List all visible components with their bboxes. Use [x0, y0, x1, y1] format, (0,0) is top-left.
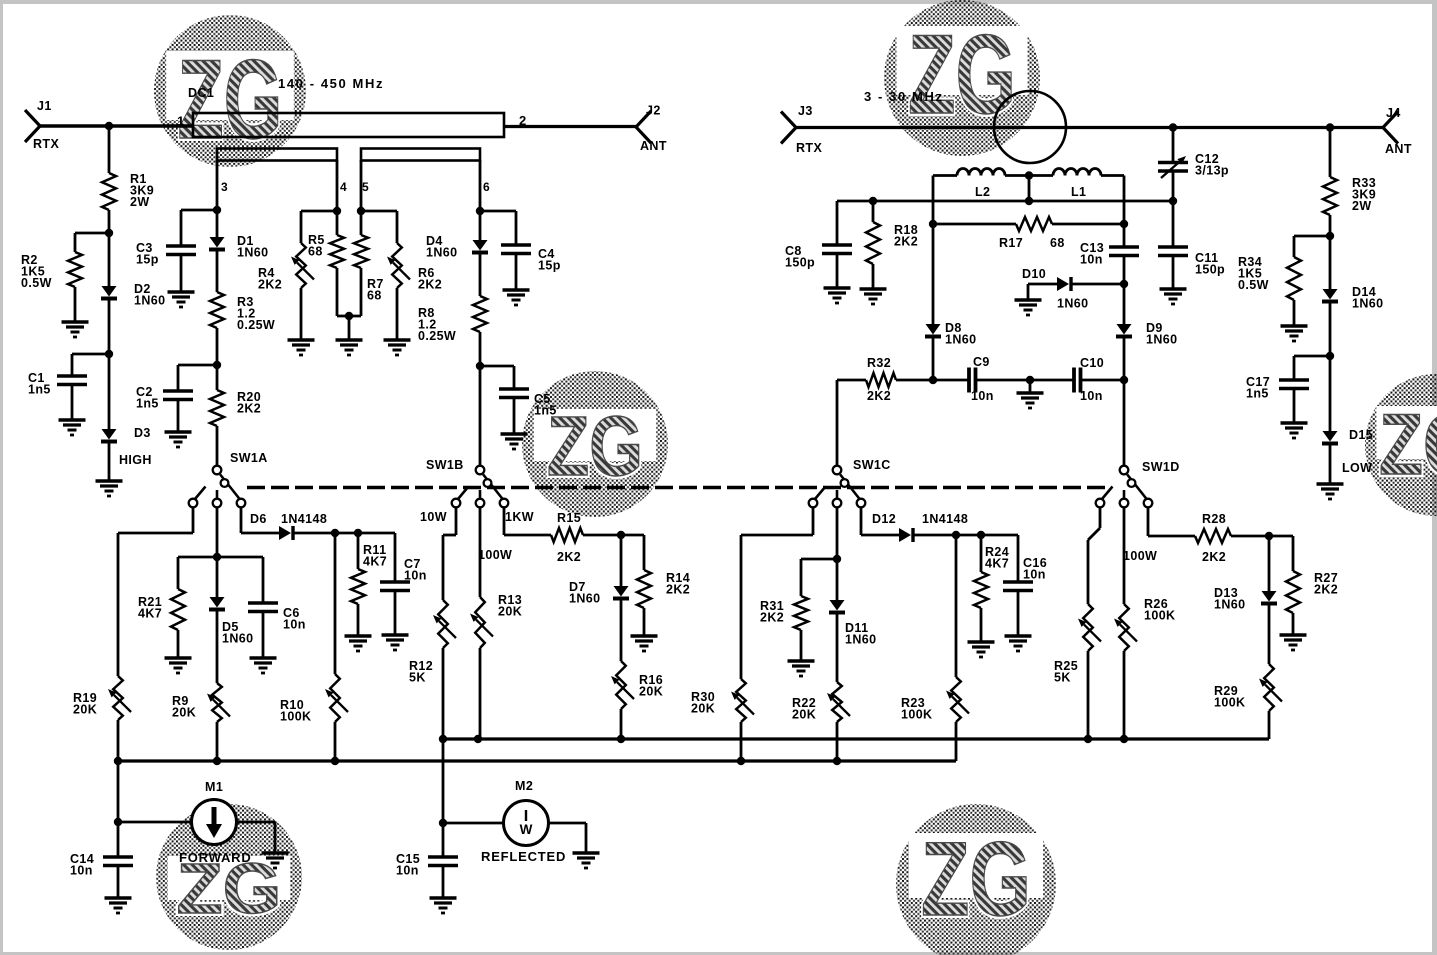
wire to R21	[177, 557, 180, 589]
label R9 20K	[172, 694, 196, 720]
label R22 20K	[792, 696, 816, 722]
resistor R2	[68, 252, 82, 287]
svg-text:ZG: ZG	[1379, 397, 1437, 493]
resistor R31	[794, 596, 808, 630]
wire node to D13	[1268, 536, 1271, 591]
label D5 1N60	[222, 620, 253, 646]
resistor R20	[210, 390, 224, 426]
svg-text:4: 4	[340, 180, 347, 194]
svg-text:L2: L2	[975, 185, 990, 199]
wire node to R27	[1269, 536, 1293, 571]
node D6-R10 junction	[331, 529, 339, 537]
label J2	[646, 104, 661, 118]
label R17 value 68	[1050, 236, 1065, 250]
label D7 1N60	[569, 580, 600, 606]
coupled line right (DC1 secondary)	[361, 149, 480, 161]
label C16 10n	[1023, 556, 1047, 582]
wire SW1B mid contact to R13	[479, 508, 482, 597]
wire D13 to R29	[1268, 605, 1271, 664]
wire SW1A mid contact down	[216, 508, 219, 557]
wire R6 to ground	[396, 288, 399, 340]
wire R28 to node	[1231, 535, 1269, 538]
ground (C17)	[1281, 423, 1308, 438]
svg-text:1N60: 1N60	[1146, 333, 1177, 347]
wire SW1D mid contact to R26	[1123, 508, 1126, 604]
label R19 20K	[73, 691, 97, 717]
trimmer capacitor C12	[1158, 156, 1188, 178]
wire C11 to ground	[1172, 256, 1175, 290]
svg-text:R17: R17	[999, 236, 1023, 250]
potentiometer R23	[946, 677, 969, 722]
wire R34 to ground	[1293, 300, 1296, 326]
node pin4 junction	[333, 207, 341, 215]
resistor R21	[171, 589, 185, 630]
wire upper bus to M2	[442, 739, 445, 823]
svg-text:R32: R32	[867, 356, 891, 370]
svg-text:10W: 10W	[420, 510, 447, 524]
label R32 value	[867, 389, 891, 403]
node D10 junction	[1120, 280, 1128, 288]
label C9	[973, 355, 990, 369]
wire node to C2	[178, 365, 217, 391]
wire node to D9	[1123, 284, 1126, 324]
label C11 150p	[1195, 251, 1225, 277]
wire node to C3	[181, 210, 217, 246]
resistor R1	[102, 173, 116, 210]
capacitor C9	[969, 368, 976, 393]
label R18 2K2	[894, 223, 918, 249]
label D12	[872, 512, 896, 526]
wire tapline corner to C8	[836, 201, 839, 245]
label C10	[1080, 356, 1104, 370]
label D12 1N4148	[922, 512, 968, 526]
svg-text:3 - 30 MHz: 3 - 30 MHz	[864, 89, 944, 104]
svg-text:RTX: RTX	[796, 141, 822, 155]
svg-text:100W: 100W	[478, 548, 512, 562]
wire R9 to bus	[216, 722, 219, 761]
label D3	[134, 426, 151, 440]
node M1-C14 junction	[114, 818, 122, 826]
label R6 2K2	[418, 266, 442, 292]
node bus-R9	[213, 757, 221, 765]
resistor R33	[1323, 177, 1337, 215]
svg-text:2: 2	[519, 113, 527, 128]
svg-text:1N60: 1N60	[237, 246, 268, 260]
label R1 3K9 2W	[130, 172, 154, 209]
svg-text:C10: C10	[1080, 356, 1104, 370]
svg-text:2W: 2W	[130, 195, 150, 209]
label RTX (J3)	[796, 141, 822, 155]
wire R30 to bus	[740, 722, 743, 761]
wire C1 to ground	[71, 385, 74, 421]
wire R12 to bus	[442, 648, 445, 739]
watermark ZG middle	[522, 371, 668, 517]
wire node to SW1B	[479, 366, 482, 466]
node D14-C17-D15 junction	[1326, 352, 1334, 360]
wire D4 to R8	[479, 254, 482, 296]
capacitor C15	[428, 857, 458, 866]
wire SW1C mid contact down	[836, 508, 839, 559]
label R2 1K5 0.5W	[21, 253, 52, 290]
potentiometer R25	[1078, 604, 1101, 651]
svg-text:2K2: 2K2	[1314, 583, 1338, 597]
svg-text:20K: 20K	[498, 605, 522, 619]
label J3	[798, 104, 813, 118]
wire D5 to R9	[216, 611, 219, 683]
label D11 1N60	[845, 621, 876, 647]
wire junction crossbar	[178, 556, 263, 559]
resistor R24	[974, 572, 988, 608]
svg-text:10n: 10n	[70, 864, 93, 878]
wire R13 to bus	[479, 648, 482, 739]
svg-text:1N60: 1N60	[222, 632, 253, 646]
wire D9 to node	[1123, 338, 1126, 380]
wire D10 to ground	[1028, 284, 1057, 300]
svg-text:10n: 10n	[1023, 568, 1046, 582]
wire tap line	[837, 200, 1173, 203]
svg-text:68: 68	[308, 245, 323, 259]
label R15 value	[557, 550, 581, 564]
label 100W	[478, 548, 512, 562]
label D8 1N60	[945, 321, 976, 347]
meter M2	[504, 801, 549, 846]
label D10	[1022, 267, 1046, 281]
wire L1 end down	[1123, 176, 1126, 225]
wire R5 down	[336, 268, 339, 316]
meter M1	[192, 800, 237, 845]
wire lower bus	[118, 759, 956, 762]
wire junction to D11	[836, 559, 839, 600]
wire C7 to ground	[394, 591, 397, 636]
wire C14 to ground	[117, 866, 120, 899]
label D9 1N60	[1146, 321, 1177, 347]
label SW1A	[230, 451, 268, 465]
ground (C15)	[430, 898, 457, 913]
label D13 1N60	[1214, 586, 1245, 612]
svg-text:140 - 450 MHz: 140 - 450 MHz	[278, 76, 384, 91]
resistor R34	[1287, 257, 1301, 300]
label R17	[999, 236, 1023, 250]
wire R18 to ground	[872, 264, 875, 289]
svg-text:R28: R28	[1202, 512, 1226, 526]
node R28-D13-R27 junction	[1265, 532, 1273, 540]
wire main to R33	[1329, 128, 1332, 178]
wire R14 to ground	[643, 608, 646, 636]
svg-text:20K: 20K	[691, 702, 715, 716]
node bus-R10	[331, 757, 339, 765]
wire pin4 down	[336, 160, 339, 235]
svg-text:W: W	[520, 822, 533, 837]
label ANT (J2)	[640, 139, 667, 153]
wire node to R34	[1294, 236, 1330, 257]
svg-text:J3: J3	[798, 104, 813, 118]
svg-text:1n5: 1n5	[1246, 387, 1269, 401]
svg-text:ZG: ZG	[921, 821, 1031, 938]
wire to R18	[872, 201, 875, 222]
wire SW1A left contact to R19	[118, 508, 193, 676]
svg-text:5: 5	[362, 180, 369, 194]
wire C6 to ground	[262, 612, 265, 659]
wire SW1C left contact to R30	[741, 508, 813, 679]
wire SW1D left contact to R25	[1088, 508, 1100, 604]
label C15 10n	[396, 852, 420, 878]
wire node to D14	[1329, 236, 1332, 289]
svg-text:1N60: 1N60	[845, 633, 876, 647]
svg-text:M2: M2	[515, 779, 533, 793]
potentiometer R30	[731, 679, 754, 722]
label C3 15p	[136, 241, 159, 267]
resistor R3	[210, 292, 224, 328]
svg-text:1N60: 1N60	[1214, 598, 1245, 612]
label R28	[1202, 512, 1226, 526]
label C17 1n5	[1246, 375, 1270, 401]
wire C17 to ground	[1293, 389, 1296, 424]
label SW1C	[853, 458, 891, 472]
svg-text:REFLECTED: REFLECTED	[481, 849, 566, 864]
node SW1C mid junction	[833, 555, 841, 563]
wire lower bus to M1	[117, 761, 120, 822]
node bus-R30	[737, 757, 745, 765]
svg-text:10n: 10n	[404, 569, 427, 583]
capacitor C8	[822, 245, 852, 254]
svg-text:1: 1	[177, 114, 185, 129]
ground (D15) LOW	[1317, 484, 1344, 499]
node R24 junction	[977, 531, 985, 539]
wire C4 to ground	[515, 254, 518, 291]
label SW1B	[426, 458, 464, 472]
ground (C7)	[382, 635, 409, 650]
label D6 1N4148	[281, 512, 327, 526]
node C10 right junction	[1120, 376, 1128, 384]
label 140 - 450 MHz	[278, 76, 384, 91]
svg-text:SW1D: SW1D	[1142, 460, 1180, 474]
wire C2 to ground	[177, 400, 180, 433]
inductor L1	[1053, 169, 1101, 176]
node bus-R13	[474, 735, 482, 743]
label R28 value	[1202, 550, 1226, 564]
label R31 2K2	[760, 599, 784, 625]
svg-text:2K2: 2K2	[666, 583, 690, 597]
wire pin3 down	[216, 160, 219, 237]
wire C9 to node	[976, 379, 1031, 382]
potentiometer R10	[325, 674, 348, 722]
label L1	[1071, 185, 1086, 199]
svg-text:ANT: ANT	[640, 139, 667, 153]
wire R27 to ground	[1292, 613, 1295, 635]
ground (D3) HIGH	[96, 481, 123, 496]
capacitor C11	[1158, 247, 1188, 256]
wire to R11	[357, 533, 360, 569]
wire node to C7	[358, 533, 395, 582]
resistor R8	[473, 296, 487, 332]
wire R25 to bus	[1087, 651, 1090, 739]
capacitor C3	[166, 246, 196, 255]
label D2 1N60	[134, 282, 165, 308]
label R27 2K2	[1314, 571, 1338, 597]
label RTX (J1)	[33, 137, 59, 151]
wire L2 left lead	[933, 174, 957, 177]
capacitor C4	[501, 245, 531, 254]
svg-text:2K2: 2K2	[760, 611, 784, 625]
wire SW1C riser	[836, 380, 839, 466]
watermark ZG top-left	[154, 15, 306, 167]
ground (C16)	[1005, 636, 1032, 651]
wire D8 branch	[932, 224, 935, 324]
svg-text:2K2: 2K2	[237, 402, 261, 416]
ground (C4)	[503, 290, 530, 305]
label R30 20K	[691, 690, 715, 716]
wire C12 to node	[1172, 171, 1175, 201]
svg-text:J2: J2	[646, 104, 661, 118]
wire R21 to ground	[177, 630, 180, 658]
svg-text:10n: 10n	[971, 389, 994, 403]
pin 5 label	[362, 180, 369, 194]
wire R20 to SW1A	[216, 426, 219, 466]
label R25 5K	[1054, 659, 1078, 685]
svg-text:3: 3	[221, 180, 228, 194]
wire node to C1	[72, 354, 109, 376]
capacitor C5	[499, 389, 529, 398]
diode D12	[899, 528, 913, 542]
svg-text:2K2: 2K2	[418, 278, 442, 292]
wire pin5 down	[360, 160, 363, 235]
diode D1	[209, 237, 225, 250]
pin 4 label	[340, 180, 347, 194]
watermark ZG bottom-left	[156, 804, 302, 950]
potentiometer R19	[108, 676, 131, 720]
wire node to node	[335, 532, 358, 535]
wire node to D7	[620, 535, 623, 586]
ground (C11)	[1160, 289, 1187, 304]
resistor R28	[1195, 529, 1231, 543]
label C6 10n	[283, 606, 306, 632]
label R32	[867, 356, 891, 370]
ground (R21)	[165, 658, 192, 673]
wire R16 to bus	[620, 709, 623, 739]
potentiometer R22	[827, 682, 850, 722]
resistor R14	[637, 570, 651, 608]
trimmer R6	[387, 243, 410, 288]
ground (C9/C10)	[1017, 393, 1044, 408]
diode D8	[925, 324, 941, 337]
svg-text:1N60: 1N60	[1057, 297, 1088, 311]
label R21 4K7	[138, 595, 162, 621]
capacitor C16	[1003, 582, 1033, 591]
svg-text:15p: 15p	[538, 259, 561, 273]
connector J2	[636, 111, 651, 143]
wire R32 left lead	[837, 379, 866, 382]
node R17 left junction	[929, 220, 937, 228]
wire R26 to bus	[1123, 651, 1126, 739]
ground (R27)	[1280, 635, 1307, 650]
ground (C2)	[165, 432, 192, 447]
svg-text:150p: 150p	[785, 256, 815, 270]
label HIGH	[119, 453, 152, 467]
svg-text:D6: D6	[250, 512, 267, 526]
resistor R27	[1286, 571, 1300, 613]
node main-R33 junction	[1326, 123, 1334, 131]
svg-text:20K: 20K	[792, 708, 816, 722]
wire R23 to bus	[955, 722, 958, 761]
wire R2 to ground	[74, 287, 77, 322]
label J4	[1386, 106, 1401, 120]
label C5 1n5	[534, 392, 557, 418]
label D10 1N60	[1057, 297, 1088, 311]
wire C8 to ground	[836, 254, 839, 289]
svg-text:1N60: 1N60	[426, 246, 457, 260]
wire D2 to node	[108, 300, 111, 354]
resistor R7	[354, 235, 368, 268]
pin 2 label	[519, 113, 527, 128]
svg-text:RTX: RTX	[33, 137, 59, 151]
wire D6 to node	[293, 532, 335, 535]
diode D14	[1322, 289, 1338, 302]
label 3 - 30 MHz	[864, 89, 944, 104]
wire R10 to bus	[334, 722, 337, 761]
wire R8 to node	[479, 332, 482, 366]
svg-text:1N4148: 1N4148	[922, 512, 968, 526]
ground (R11)	[345, 636, 372, 651]
node R3-C2-R20 junction	[213, 361, 221, 369]
svg-text:SW1C: SW1C	[853, 458, 891, 472]
diode D9	[1116, 324, 1132, 337]
ground (M1)	[262, 853, 289, 868]
svg-text:68: 68	[367, 289, 382, 303]
diode D11	[829, 600, 845, 613]
wire main to C12	[1172, 128, 1175, 163]
ground (C6)	[250, 658, 277, 673]
svg-text:10n: 10n	[1080, 389, 1103, 403]
potentiometer R12	[433, 600, 456, 648]
svg-text:FORWARD: FORWARD	[179, 850, 252, 865]
label 100W (SW1D)	[1123, 549, 1157, 563]
wire junction to R31	[801, 559, 837, 596]
label C2 1n5	[136, 385, 159, 411]
label R14 2K2	[666, 571, 690, 597]
wire node to D15	[1329, 356, 1332, 431]
label D15	[1349, 428, 1373, 442]
node C12-C11 junction	[1169, 197, 1177, 205]
potentiometer R26	[1114, 604, 1137, 651]
label C4 15p	[538, 247, 561, 273]
capacitor C17	[1279, 380, 1309, 389]
ground (R5/R7)	[336, 340, 363, 355]
svg-text:1n5: 1n5	[136, 397, 159, 411]
wire C15 to ground	[442, 866, 445, 899]
switch SW1A	[189, 466, 246, 508]
label R33 3K9 2W	[1352, 176, 1376, 213]
directional coupler DC1 body	[193, 113, 504, 137]
wire main line J3 to J4	[796, 126, 1383, 129]
wire junction to D5	[216, 557, 219, 597]
wire node to C17	[1294, 356, 1330, 380]
svg-text:ZG: ZG	[547, 399, 643, 493]
wire L2-L1 center	[1005, 174, 1053, 177]
label R7 68	[367, 277, 384, 303]
svg-text:M1: M1	[205, 780, 223, 794]
node D2-C1-D3 junction	[105, 350, 113, 358]
svg-text:LOW: LOW	[1342, 461, 1372, 475]
label D6	[250, 512, 267, 526]
wire C16 to ground	[1017, 591, 1020, 637]
label R26 100K	[1144, 597, 1175, 623]
node J1-R1 junction	[105, 122, 113, 130]
ground (C5)	[501, 434, 528, 449]
svg-text:20K: 20K	[639, 685, 663, 699]
wire R1 to node	[108, 210, 111, 233]
wire D3 to ground	[108, 443, 111, 481]
svg-text:10n: 10n	[1080, 253, 1103, 267]
